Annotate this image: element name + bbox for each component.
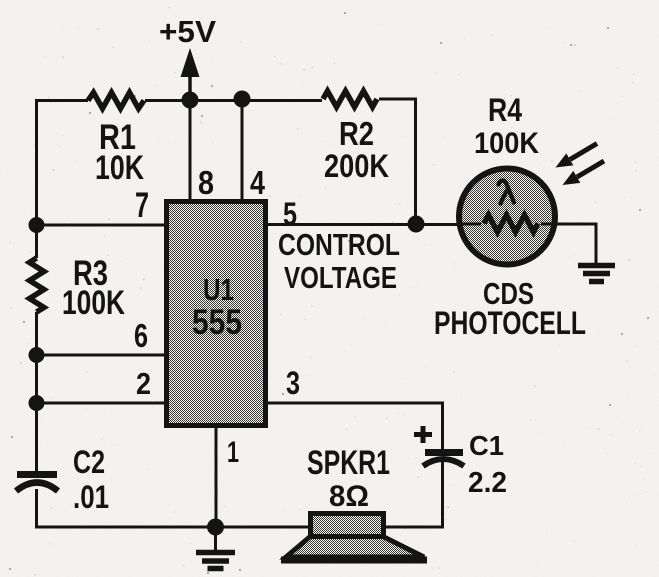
svg-text:555: 555 <box>192 303 242 342</box>
svg-text:10K: 10K <box>95 149 144 187</box>
photocell internal resistor <box>460 223 555 226</box>
node pin7 junction <box>29 217 45 233</box>
wire pin6 <box>36 354 164 357</box>
svg-text:2.2: 2.2 <box>468 467 507 499</box>
photocell R4 body <box>459 169 555 265</box>
node pin1 ground junction <box>207 519 224 536</box>
wire C1 bottom <box>385 462 443 527</box>
light arrow 1 <box>556 144 598 168</box>
svg-text:R4: R4 <box>488 92 522 128</box>
wire left rail <box>37 224 310 527</box>
svg-text:C1: C1 <box>469 430 504 461</box>
svg-text:C2: C2 <box>73 444 105 480</box>
svg-text:U1: U1 <box>203 272 234 307</box>
wire pin4 <box>241 99 244 199</box>
wire photocell right to ground <box>556 224 596 264</box>
wire pin8 <box>189 100 192 199</box>
svg-text:1: 1 <box>227 436 239 469</box>
node pin2 junction <box>29 395 45 411</box>
svg-text:.01: .01 <box>73 479 109 515</box>
svg-text:SPKR1: SPKR1 <box>307 444 390 482</box>
svg-text:PHOTOCELL: PHOTOCELL <box>434 305 586 341</box>
light arrow 2 <box>563 161 605 185</box>
svg-text:7: 7 <box>135 186 149 225</box>
+5V arrow <box>181 48 200 100</box>
wire pin2 <box>36 402 164 405</box>
resistor R3 <box>30 258 45 312</box>
svg-text:+5V: +5V <box>159 14 216 49</box>
svg-text:CONTROL: CONTROL <box>278 227 400 262</box>
capacitor C2 <box>16 475 58 492</box>
svg-text:R2: R2 <box>339 115 374 152</box>
node pin4 junction <box>234 91 251 108</box>
wire pin3 to C1 <box>268 403 443 450</box>
node control voltage junction <box>408 216 425 233</box>
ground (bottom) <box>196 553 235 569</box>
op-amp U1 555 IC body <box>167 202 266 426</box>
wire pin1 <box>215 428 218 527</box>
svg-text:200K: 200K <box>324 148 389 184</box>
svg-text:3: 3 <box>286 365 300 401</box>
node +5V junction <box>182 92 199 109</box>
wire ground stub bottom <box>214 527 217 551</box>
svg-text:8Ω: 8Ω <box>329 480 369 513</box>
resistor R1 <box>88 93 144 109</box>
resistor R2 <box>323 91 377 107</box>
svg-text:100K: 100K <box>474 127 539 160</box>
svg-text:2: 2 <box>136 366 151 401</box>
svg-text:100K: 100K <box>62 284 125 322</box>
svg-text:6: 6 <box>134 317 148 354</box>
ground (photocell) <box>578 266 615 282</box>
wire pin7 <box>36 224 164 227</box>
node pin6 junction <box>29 347 45 363</box>
capacitor C1 <box>414 426 464 466</box>
svg-text:4: 4 <box>250 164 266 201</box>
svg-text:VOLTAGE: VOLTAGE <box>284 260 397 295</box>
speaker SPKR1 <box>281 514 427 561</box>
lambda symbol <box>499 180 515 203</box>
svg-text:8: 8 <box>198 164 214 201</box>
wire top rail <box>37 99 416 226</box>
wire pin5 to photocell <box>268 223 458 226</box>
